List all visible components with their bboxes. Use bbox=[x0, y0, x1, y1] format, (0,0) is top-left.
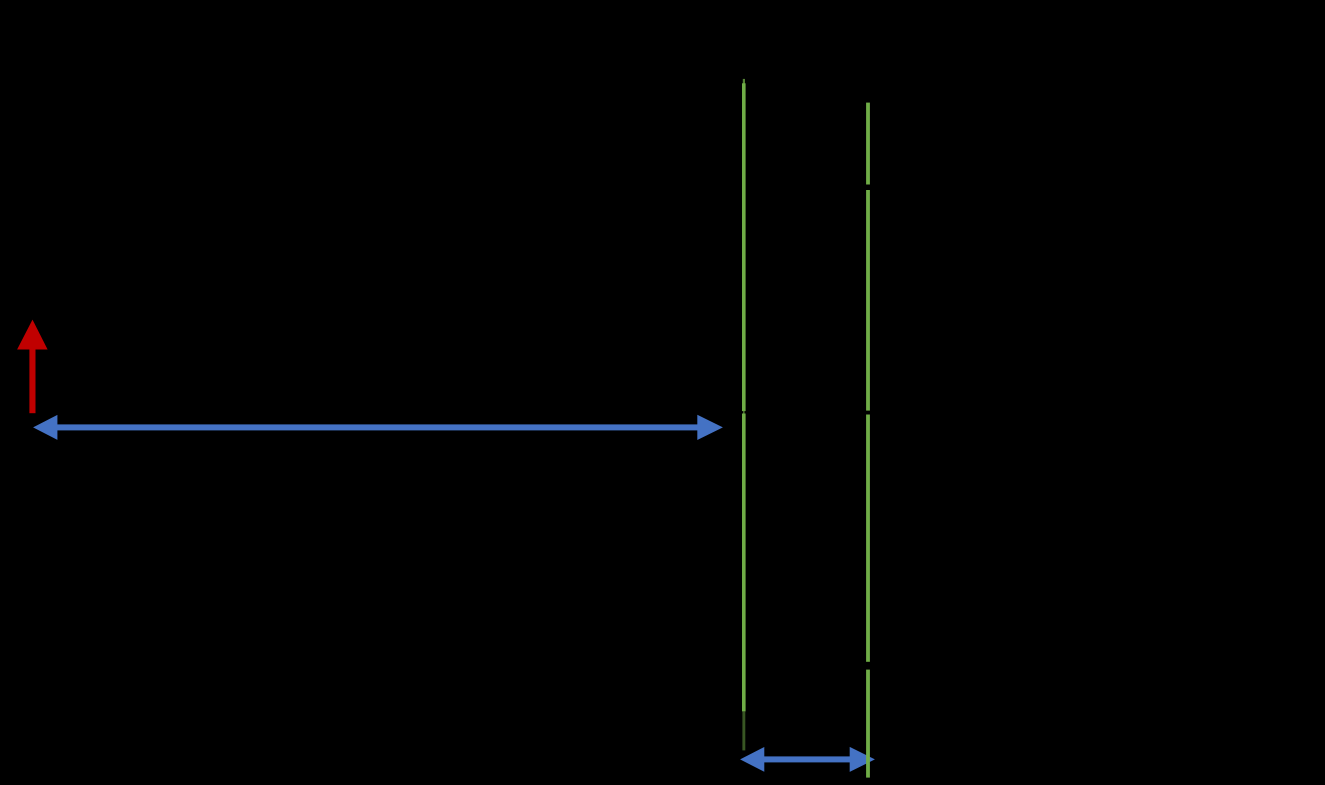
right green plate line bbox=[866, 103, 870, 778]
red velocity arrow bbox=[17, 320, 47, 414]
left green plate line bbox=[742, 79, 746, 751]
long blue double-headed arrow bbox=[33, 415, 723, 440]
bottom blue double-headed arrow bbox=[740, 747, 875, 772]
